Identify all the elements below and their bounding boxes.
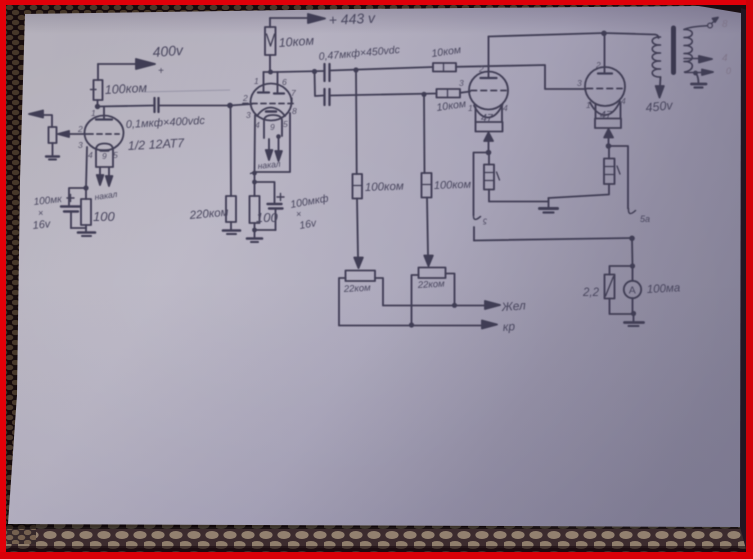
meter rail (474, 238, 632, 241)
V2 cathode leads (255, 113, 291, 172)
svg-text:6: 6 (282, 77, 287, 87)
output line Kr (339, 325, 484, 327)
V3 cathode bulge (474, 105, 503, 118)
grid stopper R8 (10k) (437, 89, 461, 98)
V2 cathode arc (257, 108, 285, 117)
svg-text:3: 3 (459, 78, 464, 88)
R5 V mark (267, 34, 275, 46)
svg-text:47: 47 (481, 112, 494, 124)
svg-text:2: 2 (595, 60, 601, 70)
svg-text:2: 2 (77, 124, 83, 134)
common cathode ground (548, 198, 550, 208)
tube V1 envelope (85, 116, 124, 151)
grid tap 2 vertical (423, 94, 426, 173)
svg-text:8: 8 (722, 19, 728, 30)
bypass cap C3 wire (255, 182, 275, 203)
coupling cap C5 (0.47 bottom) (323, 89, 325, 105)
tube V3 envelope (469, 72, 508, 110)
V4 cathode bulge (590, 102, 620, 116)
svg-text:100ма: 100ма (647, 282, 681, 296)
wiper arrow P1 (354, 258, 363, 269)
V2 heater arrows (268, 139, 270, 154)
branch down to lower cap (315, 72, 324, 97)
ground (V1 cathode) (85, 228, 87, 232)
P1 left lead (339, 278, 346, 325)
V2 plates (258, 91, 269, 93)
V2 pin7 stub (291, 98, 293, 102)
V4 grid dashed (587, 88, 622, 90)
svg-text:4: 4 (722, 53, 728, 64)
plate rail to transformer (489, 33, 659, 38)
grid stopper R7 (10k) (433, 63, 456, 72)
ground (meter) (633, 314, 635, 323)
svg-text:2,2: 2,2 (582, 287, 600, 299)
potentiometer R1 (49, 127, 57, 143)
svg-text:1: 1 (586, 100, 591, 110)
wire R1 to ground (52, 143, 54, 155)
svg-text:1: 1 (468, 103, 473, 113)
potentiometer P1 (22k) (346, 271, 376, 282)
svg-text:5: 5 (283, 119, 288, 129)
400v supply arrow (98, 63, 138, 65)
svg-text:Жел: Жел (500, 298, 526, 314)
faint crease line (143, 90, 230, 92)
svg-text:3: 3 (246, 110, 251, 120)
svg-text:8: 8 (292, 106, 297, 116)
V1 grid (dashed) (88, 133, 119, 135)
V4 switch branch wire (609, 146, 629, 209)
ground (secondary) (696, 73, 699, 84)
svg-text:4: 4 (255, 120, 260, 130)
transformer T1 core (671, 28, 676, 73)
svg-text:10ком: 10ком (278, 34, 315, 50)
wire node to V2 grid (230, 104, 252, 106)
V4 cathode 47 box (596, 103, 621, 119)
svg-text:+ 443 v: + 443 v (328, 10, 376, 28)
R1 wiper arrow (62, 133, 87, 135)
svg-text:16v: 16v (32, 218, 52, 232)
input arrow (40, 115, 52, 127)
svg-text:0: 0 (726, 66, 731, 76)
svg-text:кр: кр (502, 319, 516, 334)
wire R7 to V4 grid (456, 65, 586, 89)
svg-text:×: × (38, 208, 43, 218)
plate resistor R5 (10k) (265, 27, 276, 55)
svg-text:3: 3 (78, 140, 83, 150)
junction dots cathode (252, 171, 257, 176)
node plate V1 (95, 104, 100, 109)
svg-text:9: 9 (270, 122, 275, 132)
tube V2 envelope (251, 84, 292, 121)
svg-text:400v: 400v (152, 42, 184, 60)
ground (R1) (46, 155, 59, 157)
tube V4 envelope (585, 67, 625, 106)
plate resistor R3 (100k) (97, 100, 99, 106)
wire plates to caps (278, 71, 325, 72)
svg-text:1: 1 (254, 76, 259, 86)
switch S2 (628, 209, 635, 214)
P2 right lead (446, 274, 455, 306)
svg-text:+: + (158, 66, 164, 77)
P2 left lead (412, 275, 419, 325)
grid resistor R4 (220k) wire (230, 106, 233, 197)
V3 cathode 47 box (476, 106, 503, 122)
V3 cathode resistor R9 (488, 153, 490, 165)
wire C4 to R7 (330, 67, 433, 71)
wire C5 to R8 (331, 94, 437, 96)
svg-text:A: A (629, 285, 636, 297)
P1 right lead (375, 278, 383, 305)
svg-text:2: 2 (478, 64, 484, 74)
svg-text:100ком: 100ком (434, 179, 472, 192)
coupling cap C4 (0.47 top) (323, 64, 325, 81)
svg-text:7: 7 (291, 88, 296, 98)
svg-text:4: 4 (621, 96, 626, 106)
svg-text:100ком: 100ком (365, 181, 404, 194)
cathode bottom wire (71, 227, 86, 229)
bypass cap C2 wire (69, 188, 86, 205)
electrolytic C3 (268, 203, 282, 205)
resistor R13 (100k) (422, 173, 432, 198)
svg-text:1: 1 (91, 108, 96, 118)
red border frame (0, 0, 753, 5)
wire C1 to grid node (159, 105, 230, 107)
V4 plate (598, 72, 612, 74)
right edge shadow (740, 8, 747, 553)
V1 cathode wire (86, 147, 87, 199)
transformer T1 secondary winding (684, 29, 692, 72)
V4 hum balance arrow (604, 129, 613, 138)
V4 cathode resistor R10 (608, 146, 610, 159)
V1 plate (103, 107, 105, 119)
V3 plate (481, 77, 497, 79)
svg-text:4: 4 (503, 103, 508, 113)
svg-text:100: 100 (256, 210, 278, 225)
shunt resistor R11 (2.2) (605, 275, 615, 299)
ammeter A1 (624, 281, 641, 298)
svg-text:4: 4 (88, 150, 93, 160)
V2 cathode resistor R6 (100) (250, 196, 260, 223)
svg-text:5а: 5а (640, 214, 650, 224)
C3 plus (277, 194, 284, 201)
grid tap 1 vertical (355, 70, 358, 174)
svg-text:47: 47 (600, 109, 613, 121)
top-right dark wedge (685, 3, 753, 15)
electrolytic C2 plus (67, 195, 74, 202)
primary lead 450v arrow (659, 77, 662, 86)
svg-text:ϛ: ϛ (483, 216, 487, 225)
shunt branch (610, 266, 633, 275)
potentiometer P2 (22k) (419, 268, 446, 279)
cathode resistor R2 (100) (81, 199, 91, 225)
svg-text:100: 100 (93, 209, 115, 224)
V3 switch branch wire (474, 153, 489, 216)
coupling cap C1 (0.1uF) (153, 98, 155, 112)
B+ arrow (270, 17, 310, 19)
node (V2 grid) (227, 103, 233, 109)
wire S1 to rail (473, 227, 475, 241)
wire plate to C1 (98, 106, 154, 107)
ground (V2 cathode) (254, 230, 256, 238)
secondary tap 8 (684, 26, 707, 30)
secondary tap 4 (684, 58, 702, 60)
svg-text:5: 5 (113, 150, 118, 160)
wiper arrow P2 (424, 256, 433, 267)
resistor R12 (100k) (353, 174, 363, 199)
V2 plate tie bar (264, 71, 278, 73)
transformer T1 primary winding (652, 37, 660, 77)
V3 hum balance arrow (484, 133, 493, 142)
secondary tap 0 (685, 72, 706, 74)
ground (R4) (223, 229, 240, 232)
junction (cathode node) (83, 185, 88, 190)
V2 heater capsule (264, 115, 282, 138)
svg-text:22ком: 22ком (343, 283, 372, 295)
wire R8 to V3 grid (460, 92, 470, 93)
svg-text:3: 3 (577, 78, 582, 88)
svg-text:×: × (296, 209, 301, 219)
svg-text:9: 9 (102, 151, 107, 161)
switch S1 (473, 215, 480, 219)
output line Zhel (383, 305, 487, 307)
svg-text:22ком: 22ком (417, 279, 446, 291)
svg-text:2: 2 (242, 93, 248, 103)
V1 cathode heater dome (96, 144, 113, 168)
svg-text:450v: 450v (645, 98, 674, 115)
V3 grid dashed (471, 90, 506, 92)
electrolytic C2 (61, 205, 80, 207)
svg-text:100ком: 100ком (104, 81, 147, 97)
V2 grid dashed (243, 103, 293, 105)
resistor R4 220k (226, 196, 236, 222)
V1 heater arrows (99, 168, 101, 179)
rail to meter (631, 238, 634, 266)
